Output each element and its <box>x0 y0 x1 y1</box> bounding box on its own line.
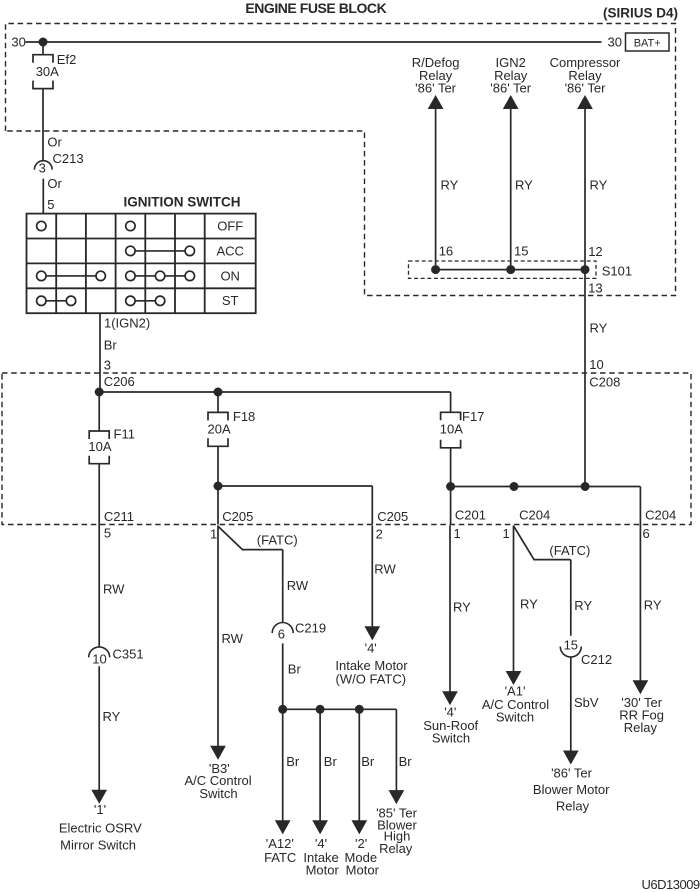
svg-text:'86' Ter: '86' Ter <box>551 766 593 781</box>
svg-text:15: 15 <box>514 244 528 259</box>
svg-text:13: 13 <box>588 281 602 296</box>
svg-text:'86' Ter: '86' Ter <box>490 81 532 96</box>
svg-text:RY: RY <box>590 178 608 193</box>
svg-text:10: 10 <box>589 357 603 372</box>
svg-text:10A: 10A <box>88 439 111 454</box>
svg-text:FATC: FATC <box>264 850 296 865</box>
svg-text:ACC: ACC <box>216 243 243 258</box>
svg-text:Br: Br <box>399 754 413 769</box>
svg-text:RY: RY <box>441 178 459 193</box>
svg-text:ENGINE FUSE BLOCK: ENGINE FUSE BLOCK <box>245 0 386 16</box>
svg-text:RY: RY <box>453 599 471 614</box>
svg-text:Blower Motor: Blower Motor <box>533 782 610 797</box>
svg-text:1: 1 <box>503 526 510 541</box>
svg-text:Switch: Switch <box>496 709 534 724</box>
svg-text:C211: C211 <box>104 509 134 524</box>
svg-text:(SIRIUS D4): (SIRIUS D4) <box>603 6 678 21</box>
svg-text:ST: ST <box>222 293 239 308</box>
svg-text:Br: Br <box>288 662 302 677</box>
svg-text:OFF: OFF <box>217 219 243 234</box>
svg-text:(W/O FATC): (W/O FATC) <box>336 672 407 687</box>
svg-text:3: 3 <box>104 358 111 373</box>
svg-text:15: 15 <box>564 638 578 653</box>
svg-text:Relay: Relay <box>379 841 413 856</box>
svg-text:Mirror Switch: Mirror Switch <box>60 837 136 852</box>
svg-text:Electric OSRV: Electric OSRV <box>59 820 142 835</box>
svg-text:C205: C205 <box>377 509 408 524</box>
svg-text:5: 5 <box>104 526 111 541</box>
svg-text:C205: C205 <box>222 509 253 524</box>
svg-text:RY: RY <box>644 598 662 613</box>
svg-text:C204: C204 <box>645 508 676 523</box>
svg-text:C351: C351 <box>113 646 144 661</box>
svg-text:30: 30 <box>608 34 622 49</box>
svg-text:6: 6 <box>278 627 285 642</box>
svg-text:SbV: SbV <box>574 695 599 710</box>
svg-text:RW: RW <box>287 578 309 593</box>
svg-text:U6D13009: U6D13009 <box>642 877 700 892</box>
svg-text:5: 5 <box>47 197 54 212</box>
svg-text:16: 16 <box>439 244 453 259</box>
svg-text:F17: F17 <box>462 409 484 424</box>
svg-text:1(IGN2): 1(IGN2) <box>104 316 150 331</box>
svg-text:1: 1 <box>454 526 461 541</box>
svg-text:F18: F18 <box>233 409 255 424</box>
svg-text:20A: 20A <box>208 421 231 436</box>
svg-text:Motor: Motor <box>346 863 380 878</box>
svg-text:'4': '4' <box>365 641 377 656</box>
svg-text:C219: C219 <box>295 621 326 636</box>
svg-text:'86' Ter: '86' Ter <box>415 81 457 96</box>
svg-text:C201: C201 <box>455 508 486 523</box>
svg-text:2: 2 <box>376 527 383 542</box>
svg-text:Motor: Motor <box>306 863 340 878</box>
svg-text:C206: C206 <box>104 374 135 389</box>
svg-text:(FATC): (FATC) <box>257 533 298 548</box>
svg-text:Switch: Switch <box>432 730 470 745</box>
svg-text:RY: RY <box>574 598 592 613</box>
svg-text:Br: Br <box>286 754 300 769</box>
svg-text:C212: C212 <box>581 652 612 667</box>
svg-text:RY: RY <box>103 709 121 724</box>
svg-text:Ef2: Ef2 <box>57 52 77 67</box>
svg-text:C208: C208 <box>589 375 620 390</box>
svg-text:1: 1 <box>210 527 217 542</box>
svg-text:RW: RW <box>222 631 244 646</box>
svg-text:RY: RY <box>590 320 608 335</box>
svg-text:Br: Br <box>324 754 338 769</box>
svg-text:Relay: Relay <box>556 798 590 813</box>
svg-text:Or: Or <box>47 176 62 191</box>
svg-text:C213: C213 <box>53 151 84 166</box>
svg-text:12: 12 <box>588 244 602 259</box>
svg-text:10A: 10A <box>440 421 463 436</box>
svg-text:10: 10 <box>92 652 106 667</box>
svg-text:BAT+: BAT+ <box>634 38 661 50</box>
svg-text:ON: ON <box>220 268 240 283</box>
svg-text:IGNITION SWITCH: IGNITION SWITCH <box>124 195 241 210</box>
svg-text:Switch: Switch <box>199 786 237 801</box>
svg-text:S101: S101 <box>602 263 632 278</box>
svg-text:F11: F11 <box>114 427 135 442</box>
svg-text:RW: RW <box>103 582 125 597</box>
svg-text:Or: Or <box>47 134 62 149</box>
svg-text:'1': '1' <box>94 802 106 817</box>
svg-text:Relay: Relay <box>624 720 658 735</box>
svg-text:30: 30 <box>11 34 25 49</box>
svg-text:3: 3 <box>39 161 46 176</box>
svg-text:6: 6 <box>643 526 650 541</box>
svg-text:Br: Br <box>104 338 118 353</box>
svg-text:30A: 30A <box>36 64 59 79</box>
svg-text:RW: RW <box>374 562 396 577</box>
svg-text:'86' Ter: '86' Ter <box>565 81 607 96</box>
svg-text:Br: Br <box>361 754 375 769</box>
svg-text:C204: C204 <box>519 508 550 523</box>
svg-text:RY: RY <box>520 596 538 611</box>
svg-text:(FATC): (FATC) <box>549 543 590 558</box>
svg-text:RY: RY <box>515 178 533 193</box>
